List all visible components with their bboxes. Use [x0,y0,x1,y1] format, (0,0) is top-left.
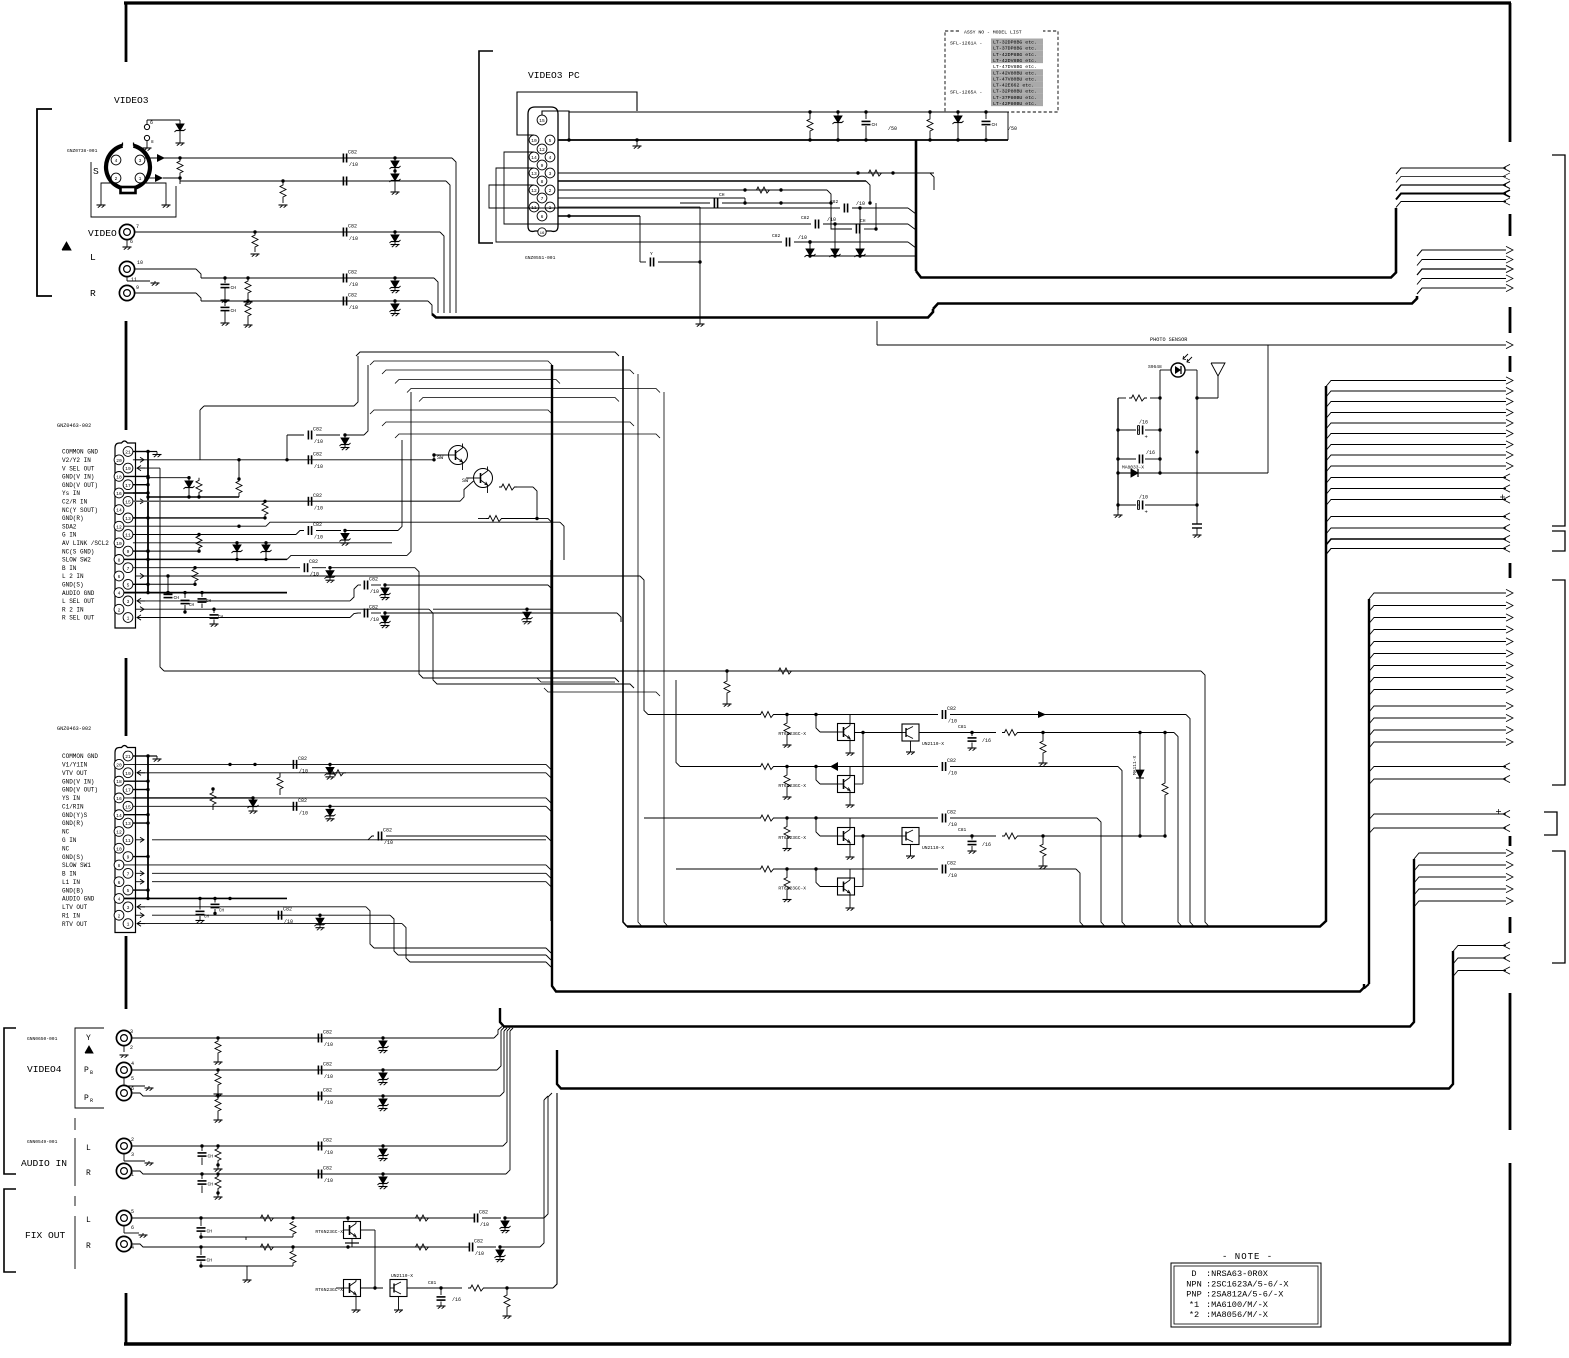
svg-text:B: B [90,1070,93,1076]
wire R bend [428,301,432,314]
wire Laudio gnd [124,1154,154,1166]
antenna [1197,363,1225,398]
capacitor CH audio R [198,1174,220,1195]
capacitor CH L line [221,276,237,302]
resistor row0 b [776,668,794,674]
wire page border right dash [1509,563,1512,578]
svg-text:/50: /50 [1008,126,1017,132]
svg-text:/10: /10 [324,1178,333,1184]
label GNN0549-001 [27,1139,58,1145]
diode C line [390,169,401,194]
svg-text:R1 IN: R1 IN [62,912,80,919]
svg-text:CH: CH [208,1154,214,1160]
connector CN2 body [115,746,136,933]
transistor Q RT6N23GC-X fixD [315,1280,360,1297]
wire CN2 joins [546,764,551,887]
svg-text:LT-42DV8BG etc.: LT-42DV8BG etc. [993,58,1037,64]
connector CN1 pins [114,447,133,623]
connector CN1 body [115,441,136,628]
wire SW out [517,487,537,519]
resistor row2 a [758,764,776,770]
svg-text:*2: *2 [1189,1310,1199,1320]
svg-text:C82: C82 [298,756,307,762]
connector Pb jack [116,1061,134,1082]
arrow CN2 p19 [137,770,145,775]
label GNN0650-001 [27,1036,58,1042]
svg-text:R: R [90,1098,93,1104]
wire CN1 p3 LSEL [137,577,552,601]
svg-text:RT6N23GC-X: RT6N23GC-X [778,731,806,737]
arrow CN2 p6 [136,879,144,884]
wire fixU emitter [345,1239,359,1248]
svg-text:RTV OUT: RTV OUT [62,921,88,928]
wire page border right dash [1509,1163,1512,1344]
svg-text:+: + [1145,434,1148,441]
wire V4 group line [75,1028,104,1108]
svg-text:12: 12 [531,188,537,194]
wire fixD collector [361,1286,384,1289]
transistor Q UN2110-X row1 [902,724,944,747]
wire DB15 gnd rail [558,138,1008,141]
capacitor C82 pc b [600,215,916,230]
arrow CN1 p6 [136,573,144,578]
resistor fix out2 [503,1288,512,1319]
svg-text:/10: /10 [856,201,865,207]
wire fan G4 arrows [1326,377,1513,555]
svg-text:C81: C81 [958,724,967,730]
wire bus G7 [557,951,1453,1089]
svg-text:MA8033-X: MA8033-X [1122,465,1144,471]
wire row2 left riser [676,680,680,767]
svg-text:C82: C82 [947,706,956,712]
wire page border right dash [1509,993,1512,1130]
connector Y jack [116,1029,133,1051]
svg-text:/10: /10 [349,236,358,242]
svg-text:C82: C82 [323,1062,332,1068]
wire page border right dash [1509,214,1512,236]
svg-text:GNN0549-001: GNN0549-001 [27,1139,58,1145]
svg-text:3: 3 [130,1029,133,1035]
svg-text:R: R [90,288,96,299]
resistor R pc2 [856,170,934,176]
arrow row1 [1038,711,1046,718]
svg-text:12: 12 [539,147,545,153]
wire fan G1 arrows [1396,164,1510,207]
connector VIDEO jack [119,224,139,245]
connector Pr jack [116,1085,134,1100]
bracket right B4 [1544,812,1557,835]
bracket right B3 [1552,580,1565,785]
label S [93,166,99,177]
svg-text:C82: C82 [283,907,292,913]
ground fix un [394,1297,403,1313]
svg-text::MA8056/M/-X: :MA8056/M/-X [1206,1310,1268,1320]
capacitor cluster DB15 rails [807,110,1017,141]
wire row4 left riser [0,0,1,1]
svg-text:19: 19 [125,466,131,472]
svg-text:1: 1 [139,176,142,182]
arrow CN2 p2 [136,913,144,918]
wire CN2 p1 rtv [137,924,551,967]
svg-text:/10: /10 [284,919,293,925]
svg-text:16: 16 [116,796,122,802]
svg-text:SLOW SW2: SLOW SW2 [62,557,91,564]
svg-text:D: D [1191,1269,1196,1279]
svg-text:G IN: G IN [62,532,77,539]
connector CN2 pins [114,751,133,928]
wire fixU base [347,1218,349,1222]
wire transit 682 [537,678,615,682]
ground S-video left [97,205,106,208]
wire page border right dash [1509,3,1512,142]
svg-text:SW: SW [462,478,469,484]
wire G5 bus [1364,599,1369,989]
wire bus V638 [638,374,642,927]
ground CN1 [148,452,162,458]
wire fan G5 arrows [1369,589,1513,748]
svg-text:/10: /10 [314,464,323,470]
svg-text:GNN0650-001: GNN0650-001 [27,1036,58,1042]
arrow CN1 p3 [137,598,145,603]
resistor CN1 r3 [262,501,268,519]
svg-text:7: 7 [136,224,139,230]
svg-text:5: 5 [127,888,130,894]
bracket right B5 [1552,851,1565,963]
diode Pb [378,1068,389,1085]
wire CN1 p2 route [287,608,634,689]
wire bus B [933,296,1417,309]
label VIDEO3 PC [528,70,580,81]
wire row2 base [814,765,837,784]
wire page border right dash [1509,836,1512,846]
svg-text:/16: /16 [982,842,991,848]
svg-text:/10: /10 [384,840,393,846]
wire drop x872 join [0,0,1,1]
svg-text:C82: C82 [383,828,392,834]
diode L line [390,276,401,293]
wire row4 base [814,867,837,886]
capacitor C82 fix R [469,1239,501,1258]
capacitor CH CN1 c [198,593,212,608]
svg-text:5: 5 [549,138,552,144]
ground Y jack [120,1046,129,1058]
wire fix group line [74,1196,76,1269]
svg-text:1: 1 [127,922,130,928]
svg-text:2: 2 [130,1045,133,1051]
svg-text:C2/R IN: C2/R IN [62,499,88,506]
wire S-video ground box [91,162,176,217]
wire page border left dash [125,658,128,736]
svg-text:NC: NC [62,829,70,836]
connector Laudio jack [116,1137,134,1158]
diode CN1 z3 [261,543,272,561]
wire Lfix gnd [124,1226,148,1238]
svg-text:CH: CH [208,1182,214,1188]
svg-text:PHOTO SENSOR: PHOTO SENSOR [1150,337,1187,343]
svg-text:/10: /10 [314,505,323,511]
svg-text:GND(R): GND(R) [62,515,84,522]
svg-text:C82: C82 [348,224,357,230]
wire page border top [124,1,1511,4]
connector DB15 pins [529,115,555,236]
svg-text:UN2110-X: UN2110-X [922,845,944,851]
transistor Q RT6N23GC-X row3 [778,828,854,845]
svg-text:/10: /10 [324,1150,333,1156]
wire fixU links [0,0,1,1]
svg-text:NC: NC [62,845,70,852]
svg-text:C81: C81 [958,827,967,833]
svg-text:/10: /10 [324,1074,333,1080]
svg-text:SFL-1265A -: SFL-1265A - [950,90,982,96]
capacitor Y pc [640,216,702,267]
svg-text:8: 8 [541,179,544,185]
wire Rfix line [132,1244,470,1249]
svg-text:C82: C82 [323,1088,332,1094]
ground row1 un [906,741,915,755]
svg-text:13: 13 [531,171,537,177]
diode pc z2 [830,246,841,257]
resistor row3 a [758,815,776,821]
wire row3 line [644,817,938,819]
wire CN2 gnd bus [147,756,149,898]
diode Pr [378,1094,389,1111]
svg-text::2SA812A/5-6/-X: :2SA812A/5-6/-X [1206,1290,1283,1300]
wire L pin11 [127,277,160,286]
svg-text:CH: CH [860,218,866,224]
capacitor C82 CN2 p6 [0,0,1,1]
svg-text:+: + [1145,509,1148,516]
ground row2 emitter [846,767,855,808]
resistor MA111 r [1162,733,1168,837]
svg-text:B IN: B IN [62,871,77,878]
resistor fix R2 [290,1245,296,1266]
capacitor CH fix R [197,1247,294,1268]
transistor Q RT6N23GC-X fixU [315,1222,360,1239]
svg-text:14: 14 [116,813,122,819]
svg-text:GND(V IN): GND(V IN) [62,474,94,481]
connector S-video pin 4 [111,155,121,165]
svg-text:4: 4 [118,591,121,597]
resistor R pc3 [699,207,701,262]
svg-text:/10: /10 [324,1042,333,1048]
svg-text:4: 4 [131,1245,134,1251]
arrow CN2 p1 [137,921,145,926]
wire bus A [916,208,1396,278]
wire page border left dash [125,3,128,62]
svg-text:CH: CH [872,122,878,128]
svg-text:8: 8 [118,558,121,564]
svg-text:LT-47DV8BG etc.: LT-47DV8BG etc. [993,64,1037,70]
svg-text:12: 12 [116,524,122,530]
svg-text:4: 4 [131,1061,134,1067]
resistor Pb [214,1070,223,1097]
svg-text:/10: /10 [370,617,379,623]
svg-text:CH: CH [204,915,210,919]
connector VIDEO3PC bracket [479,51,493,243]
diode CN1 z1 [146,476,194,497]
wire pc link verticals [835,208,860,246]
svg-text:CH: CH [231,285,237,291]
wire Y line [132,1036,494,1039]
svg-text:C82: C82 [313,522,322,528]
arrow row2 marker [830,762,838,771]
svg-text:C1/RIN: C1/RIN [62,803,84,810]
wire bus V623 top [0,0,1,1]
svg-text:YS IN: YS IN [62,795,80,802]
wire bus V556b [552,365,1364,992]
wire photo top [1160,370,1197,452]
capacitor C82 CN2 p11 [368,828,546,847]
wire row4 collector link [855,836,864,887]
svg-text:7: 7 [127,566,130,572]
label GNZ0551-001 [525,255,556,261]
svg-text:C82: C82 [309,559,318,565]
svg-text:13: 13 [125,516,131,522]
svg-text:6: 6 [118,880,121,886]
warning triangle [62,242,71,250]
wire DB15 pin7 [558,197,745,199]
svg-text:8: 8 [118,863,121,869]
svg-text:C82: C82 [323,1138,332,1144]
svg-text:LT-37DP8BG etc.: LT-37DP8BG etc. [993,46,1037,52]
wire page border right dash [1509,356,1512,372]
resistor fix L2 [290,1216,296,1237]
svg-text:AUDIO GND: AUDIO GND [62,590,95,597]
svg-text:- NOTE -: - NOTE - [1222,1252,1273,1262]
svg-text:NC(Y SOUT): NC(Y SOUT) [62,507,98,514]
capacitor C82 Pr [318,1088,333,1107]
resistor CN1 r4 [146,535,202,553]
model list rows [950,39,1043,108]
svg-text:5: 5 [131,1209,134,1215]
svg-text:7: 7 [127,871,130,877]
arrow CN1 p2 [136,607,144,612]
svg-text:9: 9 [127,549,130,555]
wire V bend [440,232,444,313]
svg-text:/10: /10 [948,873,957,879]
wire row1 collector [0,0,1,1]
ground fixD emitter [352,1297,361,1313]
svg-text:17: 17 [125,788,131,794]
wire bus V556 [550,560,552,921]
capacitor CH CN1 d [210,609,224,626]
label AUDIO IN [21,1158,67,1169]
wire DB15 pin6 [558,214,640,217]
arrow CN1 p15 [136,499,144,504]
svg-text:/16: /16 [982,738,991,744]
svg-text:GND(R): GND(R) [62,820,84,827]
svg-text:LT-32DP8BG etc.: LT-32DP8BG etc. [993,40,1037,46]
label R audio [86,1169,91,1178]
wire row3 left riser [0,0,1,1]
capacitor C82 CN2 p20 [228,756,335,780]
capacitor C82 p15 [308,493,323,512]
wire CN1 p15 drop [0,0,1,1]
arrow CN2 p3 [137,904,145,909]
diode pair Y line [390,156,401,171]
svg-text:V SEL OUT: V SEL OUT [62,465,95,472]
svg-text:C82: C82 [369,605,378,611]
svg-text:2: 2 [131,1137,134,1143]
svg-text:/10: /10 [324,1100,333,1106]
resistor fix out1 [441,1285,509,1291]
svg-text:17: 17 [125,483,131,489]
wire CN2 p3 ltv [137,907,551,953]
resistor row4 b [783,867,792,902]
svg-text:AUDIO GND: AUDIO GND [62,896,95,903]
capacitor C81 row3 [958,827,991,854]
wire CN1 p4 AUDIO GND [124,591,287,594]
wire CN2 p4 bar [124,897,287,900]
svg-text:UN2110-X: UN2110-X [922,741,944,747]
svg-text:LTV OUT: LTV OUT [62,904,88,911]
svg-text:C82: C82 [348,270,357,276]
svg-text:P: P [84,1094,89,1103]
wire CN1 p8 route [287,392,411,559]
svg-text:CH: CH [218,616,224,620]
svg-text:/10: /10 [948,822,957,828]
transistor SW2 [462,467,493,494]
resistor row0 c [0,0,1,1]
transistor Q RT6N23GC-X row2 [778,776,854,793]
wire photo ant join [1195,396,1198,399]
svg-text:11: 11 [125,838,131,844]
diode CN1 z2 [232,543,243,561]
svg-text:CH: CH [992,122,998,128]
label S9648 [1148,364,1162,370]
ground row3 emitter [846,818,855,860]
svg-text:LT-42P80BU etc.: LT-42P80BU etc. [993,101,1037,107]
label VIDEO3 [114,95,149,106]
wire VIDEO line [135,231,440,233]
arrow CN2 p7 [136,871,144,876]
wire CN1 p19 VSEL [137,468,164,671]
resistor row2 b [783,765,792,800]
connector L jack [119,260,143,283]
wire CN2 thick1 [133,796,255,799]
svg-text:/10: /10 [314,535,323,541]
diode pc z1 [805,240,816,257]
svg-text:6: 6 [541,214,544,220]
svg-text:/10: /10 [475,1251,484,1257]
ground row4 emitter [846,869,855,911]
svg-text:C82: C82 [830,199,839,205]
svg-text:5: 5 [131,1076,134,1082]
svg-text:10: 10 [116,541,122,547]
svg-text:9: 9 [136,285,139,291]
svg-text:SW: SW [437,455,444,461]
svg-text:6: 6 [118,574,121,580]
svg-text:2: 2 [115,176,118,182]
svg-text:PNP: PNP [1186,1290,1201,1300]
resistor row1 a [758,712,776,718]
svg-text::NRSA63-0R0X: :NRSA63-0R0X [1206,1269,1268,1279]
svg-text:GND(Y)S: GND(Y)S [62,812,88,819]
svg-text:GNZ0551-001: GNZ0551-001 [525,255,556,261]
label Y [86,1034,91,1043]
label plus tick G4 [1500,495,1505,500]
wire Pr line [132,1093,500,1098]
svg-text:8: 8 [151,140,154,145]
capacitor C82 row4 [942,861,1084,927]
capacitor C82 Y [318,1030,333,1049]
connector S-video shield pins [144,120,180,145]
svg-text:21: 21 [125,754,131,760]
svg-text:C82: C82 [947,810,956,816]
svg-text:C82: C82 [801,215,810,221]
svg-text:V1/Y1IN: V1/Y1IN [62,762,88,769]
svg-text:11: 11 [131,277,137,283]
